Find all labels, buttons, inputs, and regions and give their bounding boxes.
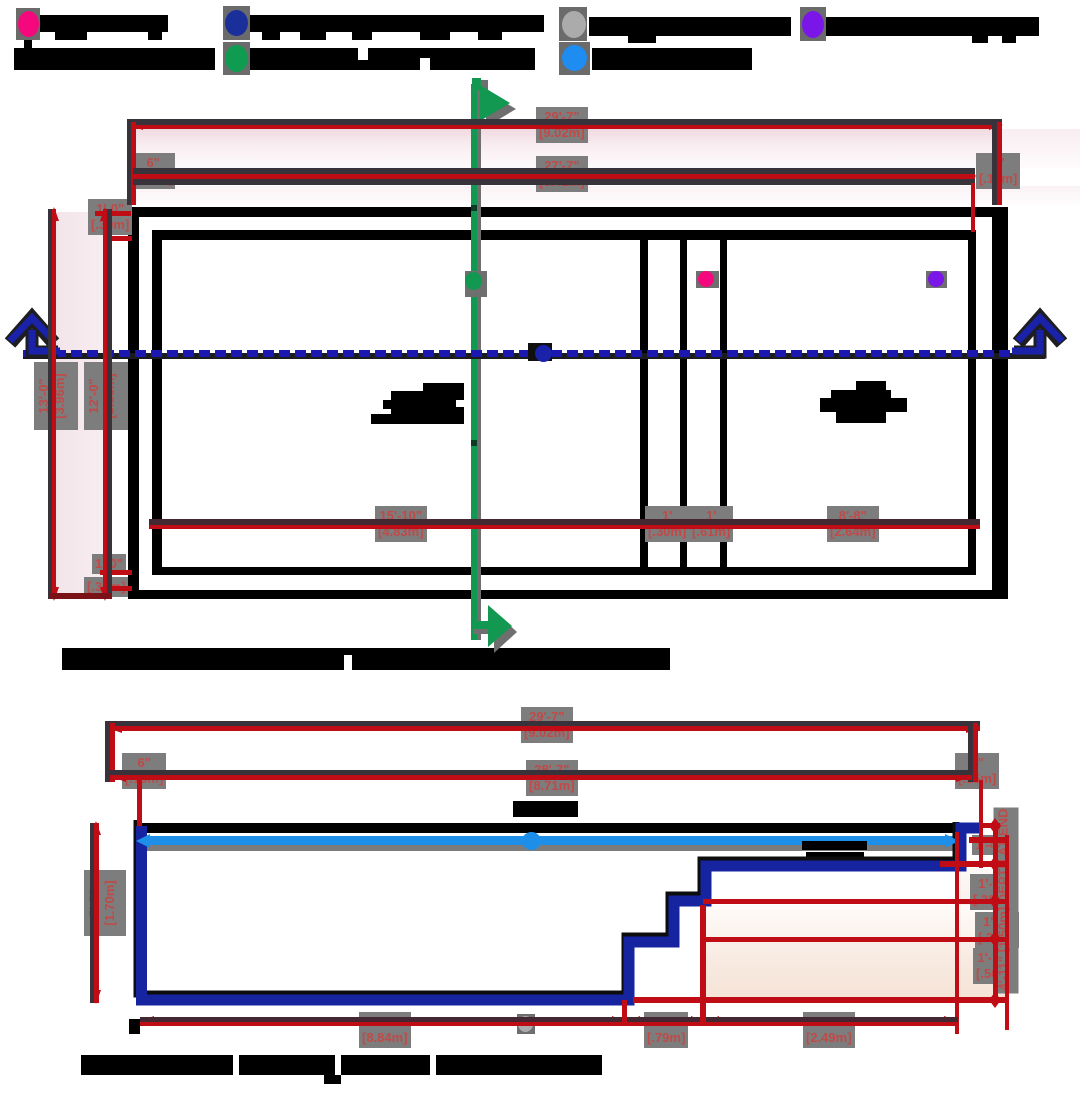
dimension line 27ft inner width (second) [133, 168, 975, 174]
title top view [62, 648, 344, 670]
red horiz y862 (bench level dim) [940, 861, 1008, 867]
sect dim1 right extension [968, 721, 973, 782]
pool outer rectangle (black) [128, 207, 1008, 217]
label 8'-8" right span [827, 506, 879, 542]
bottom labels of section [359, 1012, 411, 1048]
legend marker lightblue (water line) [559, 42, 590, 75]
sect label 6in right [955, 753, 999, 789]
legend marker gray (light) [559, 7, 587, 41]
sect dim line 2 [110, 770, 972, 775]
left pink band between vertical dim lines [56, 212, 103, 594]
green section arrow top [472, 78, 516, 127]
pool profile (navy blue) [142, 826, 981, 1000]
legend text item 7 [592, 48, 752, 70]
dimension line 29ft overall width (top) [127, 119, 1002, 125]
black text blob above deck [513, 801, 578, 817]
label 1ft step span a [645, 506, 689, 542]
red extension right x958 [955, 832, 959, 1034]
left extension line of top dim [127, 120, 131, 205]
peach fill under steps [706, 905, 1005, 999]
red extension x703 bottom [700, 905, 706, 1026]
node purple marker (light in plan) [926, 271, 947, 288]
faint band below second dim line [136, 186, 1080, 204]
node pink marker (skimmer in plan) [696, 271, 719, 288]
right long rotated strip [994, 808, 1019, 994]
right extension line of top dim [992, 120, 997, 205]
label 1ft step span b [689, 506, 733, 542]
left vertical dim line 2 (inner height) [103, 209, 107, 599]
node lightblue marker on water line [522, 832, 541, 850]
rotated label left dim 2 [84, 362, 128, 430]
label 1ft left upper pair [88, 199, 132, 235]
legend text item 2 [250, 15, 544, 32]
shallow end text blob [423, 383, 464, 400]
red extension left x139 [137, 780, 142, 826]
water line arrow left [136, 834, 150, 848]
step divider line 2 [680, 240, 687, 567]
legend text item 6 [250, 48, 535, 70]
legend text item 4 [826, 17, 1039, 36]
section line A (green vertical) gray shadow [477, 86, 481, 640]
sect label 6in left [122, 753, 166, 789]
red horiz y824 right [981, 823, 1000, 828]
pool profile shadow (black) [137, 820, 956, 994]
label 25'-7" inner left span [375, 506, 427, 542]
red arrowheads top dim 2 [131, 171, 145, 181]
red horiz y837 right (water level dim) [969, 837, 1007, 843]
label 1ft left lower pair [92, 554, 126, 574]
sect dim line 1 (overall length, top) [105, 721, 980, 726]
centerline blue dashed (section B) [23, 353, 1045, 359]
black text blob below water (bench label) [802, 841, 867, 850]
red horiz y997 (floor level dim) [633, 997, 1008, 1003]
legend marker pink (skimmer) [16, 8, 40, 40]
section arrow left (blue chevron) [10, 318, 60, 352]
rotated label left dim 1 [34, 362, 78, 430]
red arrowheads inner dim [150, 519, 164, 529]
rotated label depth [84, 870, 126, 936]
red extension right of inner dim [971, 183, 975, 232]
title longitudinal section [81, 1055, 233, 1075]
label 6in top-right corner [976, 153, 1020, 189]
node green marker on section line [465, 271, 487, 297]
red ticks near left corner labels [95, 211, 131, 216]
red diamonds right dim column [989, 818, 1001, 834]
red arrowheads top dim 1 [129, 120, 143, 130]
node gray marker on bottom dim [517, 1014, 535, 1034]
sect label overall top [521, 707, 573, 743]
deep end text blob [856, 381, 886, 393]
right dim vertical x995 [993, 822, 998, 1004]
label 29'-7" overall (top center) [536, 107, 588, 143]
left vertical dim line 1 (outer height) [48, 209, 52, 599]
sect dim1 left extension [105, 721, 110, 782]
right side small label water-bench [972, 835, 1006, 855]
water line gray shadow [147, 845, 957, 851]
section arrow right (blue chevron) [1012, 318, 1062, 352]
red arrowheads depth dim [91, 821, 101, 835]
red horiz y937 (step level dim) [703, 937, 1008, 942]
bottom connector of left dims [50, 593, 112, 599]
red horiz y899 (step level dim) [703, 899, 1008, 904]
water line arrow right [945, 834, 959, 848]
right dim vertical x1007 [1005, 835, 1009, 1030]
step divider line 3 [720, 240, 727, 567]
inner width dim line (red, lower) [149, 519, 980, 525]
legend marker green (fitting) [223, 42, 250, 75]
red arrowheads left vertical dims [49, 207, 59, 221]
legend text item 5 (row2 left, no marker) [14, 48, 215, 70]
red arrowheads section top dims [108, 723, 122, 733]
dash marks on green line [471, 205, 477, 211]
right side long rotated label [970, 874, 1014, 910]
bottom dim line of section [140, 1017, 958, 1022]
section line A (green vertical) [471, 84, 477, 640]
red extension right x981 [979, 780, 983, 868]
label 6in top-left corner [131, 153, 175, 189]
pink gradient band between top dim lines [136, 129, 996, 168]
black tick bottom-left [129, 1019, 140, 1034]
step divider line 1 [640, 240, 648, 567]
legend marker purple [800, 7, 826, 41]
deck line (black) [140, 823, 962, 833]
red arrowheads bottom dim of section [140, 1016, 154, 1026]
water line (light blue) [143, 836, 957, 845]
green section arrow bottom [471, 605, 517, 653]
node blue marker on centerline [528, 343, 552, 361]
legend marker navy (main drain) [223, 6, 250, 40]
legend text item 1 [40, 15, 168, 32]
left depth dim line [90, 823, 94, 1003]
pool inner rectangle (black) [152, 230, 976, 240]
red extension x622 bottom [622, 1000, 627, 1026]
legend text item 3 [589, 17, 791, 36]
